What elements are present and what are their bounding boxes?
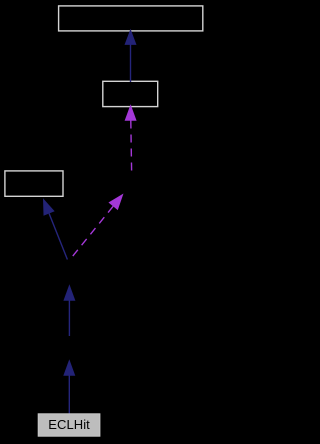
inheritance arrow E6: ECLHit to hidden node <box>63 359 75 413</box>
usage arrow E4 (dashed diagonal): hidden node to hidden node <box>72 194 123 257</box>
inheritance arrow E1: middle box to top box <box>125 29 137 82</box>
usage arrow E2 (dashed): hidden node to middle box <box>125 104 137 170</box>
node ECLHit (current class) <box>38 414 100 436</box>
inheritance arrow E5: hidden node to hidden node <box>63 284 75 336</box>
svg-text:ECLHit: ECLHit <box>48 417 90 432</box>
class box TObject (top) <box>59 6 203 31</box>
inheritance arrow E3: hidden node to left box <box>43 198 67 259</box>
class box (left) <box>5 171 63 196</box>
class box (middle) <box>103 81 158 106</box>
